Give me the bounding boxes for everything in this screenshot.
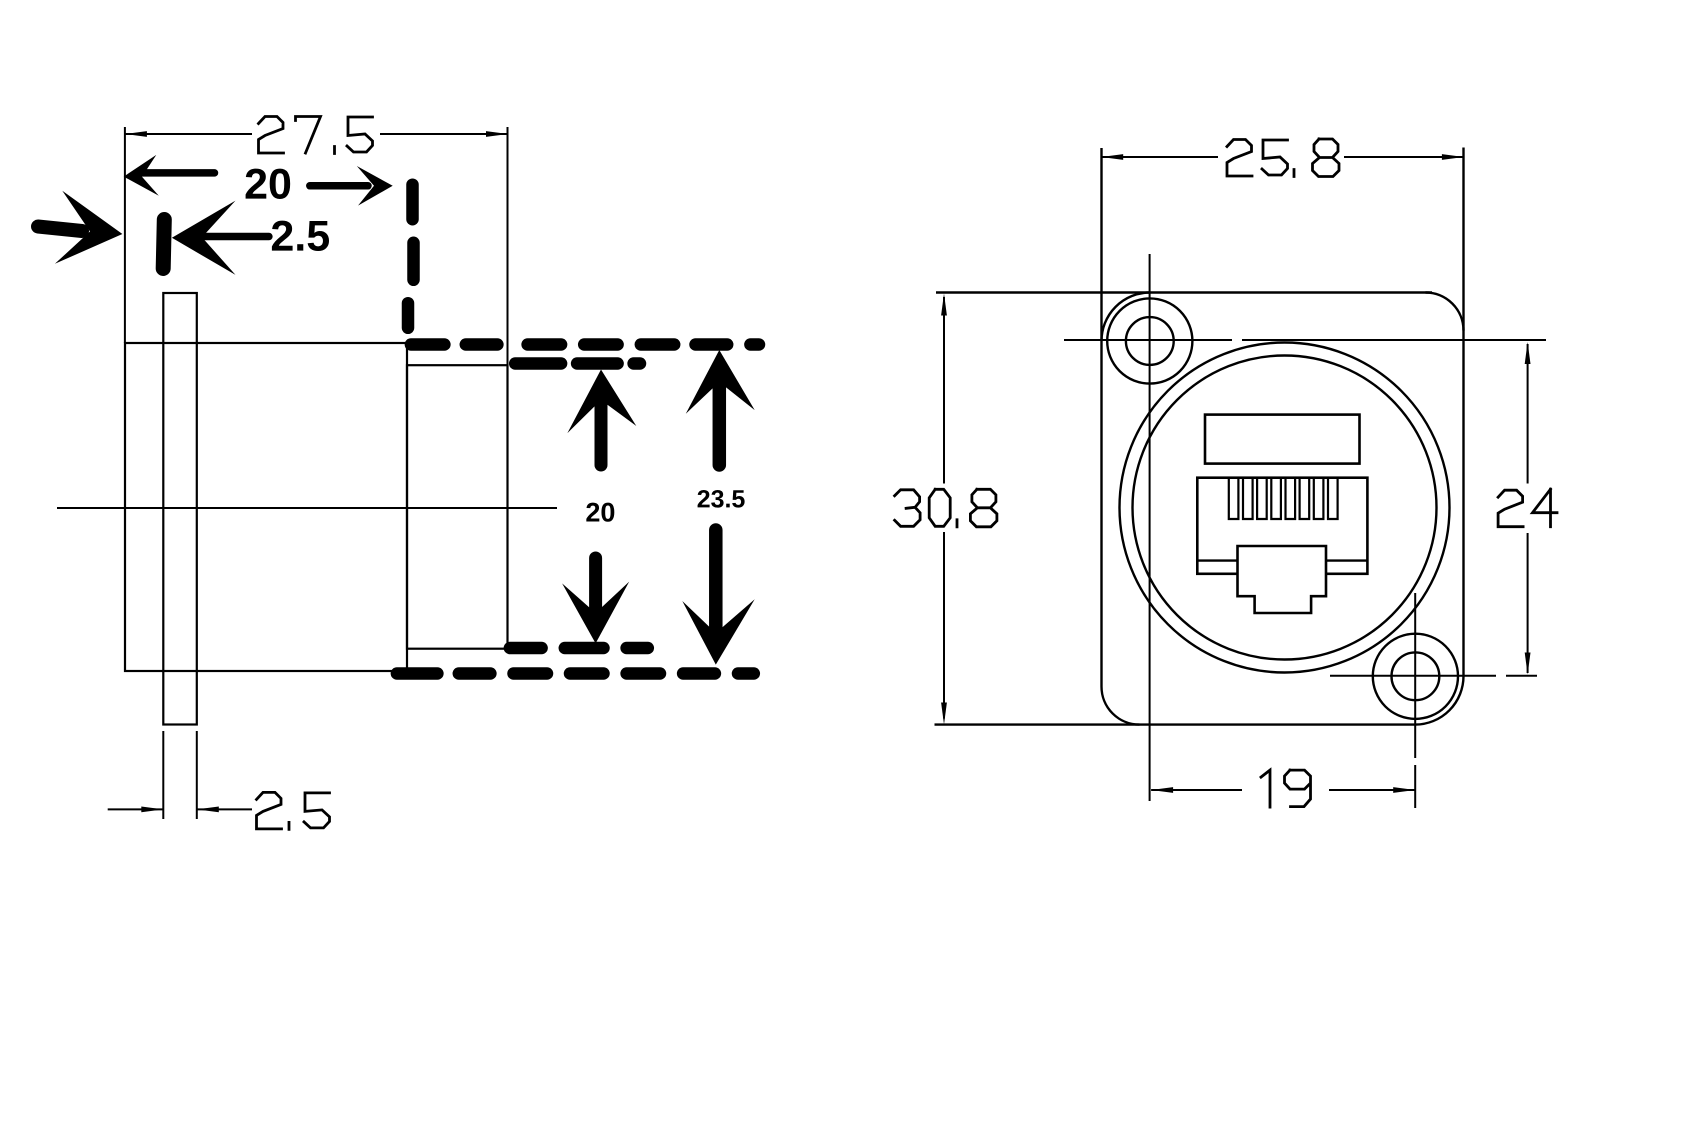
rj45 lower inner ledge (1197, 559, 1237, 561)
dimension 30.8 line (943, 297, 945, 484)
dimension 25.8 line (1101, 156, 1218, 158)
thick dashed line bottom inner (510, 642, 542, 655)
side view: flange plate (163, 293, 197, 725)
bold arrow pointing left (20) (124, 155, 159, 196)
thick dashed vertical line (406, 185, 419, 220)
bold label 20 (top) (246, 169, 267, 199)
flange corner arc top-left (1102, 293, 1150, 342)
front view: flange top edge + ext line 30.8 (936, 291, 1432, 293)
dimension 2.5 line (108, 808, 164, 810)
dimension text 30.8 (895, 489, 997, 527)
flange corner arc bottom-left (1101, 687, 1139, 725)
rj45 latch slot (1238, 546, 1327, 613)
bold down arrow (20) (562, 582, 629, 644)
dimension 27.5 extension line right (507, 127, 509, 365)
bold tick mark flange thickness (163, 220, 164, 269)
center line horizontal through top-left hole (1064, 339, 1232, 341)
side view: connector body (125, 343, 407, 671)
bold label 23.5 (698, 490, 710, 507)
main circular body inner (1133, 356, 1437, 660)
dimension 27.5 extension line left (124, 127, 126, 343)
dimension text 24 (1498, 489, 1557, 527)
bold label 2.5 (272, 221, 293, 251)
center line vertical through bottom-right hole (1414, 593, 1416, 758)
thick dashed line top outer (411, 338, 445, 351)
flange corner arc bottom-right (1416, 676, 1464, 724)
rj45 receptacle body (1197, 478, 1367, 574)
rj45 contact pins (1229, 479, 1338, 519)
dimension 19 line (1151, 789, 1242, 791)
side view: rear jack housing (407, 365, 508, 649)
dimension text 19 (1261, 770, 1311, 807)
mounting hole top-left inner (1126, 317, 1174, 365)
bold label 20 (middle) (586, 503, 599, 522)
bold up arrow (20) (567, 370, 636, 434)
front view: flange right edge + ext line 25.8 (1462, 148, 1464, 677)
center line vertical through top-left hole (1149, 254, 1151, 801)
dimension text 2.5 (257, 792, 330, 829)
front view: flange left edge + ext line 25.8 (1100, 148, 1102, 687)
rj45 top slot (1205, 415, 1360, 464)
mounting hole bottom-right inner (1392, 652, 1440, 700)
dimension text 27.5 (259, 117, 373, 154)
mounting hole bottom-right outer (1373, 634, 1458, 719)
main circular body outer (1120, 343, 1450, 673)
dimension text 25.8 (1227, 139, 1339, 177)
bold arrow pointing right (20) (357, 166, 393, 206)
mounting hole top-left outer (1107, 298, 1192, 383)
bold up arrow (23.5) (686, 350, 755, 414)
dimension 27.5 line (125, 133, 252, 135)
front view: flange bottom edge + ext line 30.8 (935, 723, 1416, 725)
side view: center line (57, 507, 557, 509)
dimension 2.5 extension lines (162, 731, 164, 819)
center line horizontal through bottom-right hole (1330, 675, 1496, 677)
flange corner arc top-right (1426, 293, 1464, 331)
bold arrow pointing right (far left) (55, 191, 123, 264)
thick dashed line top inner (515, 357, 561, 370)
dimension 24 line (1527, 344, 1529, 484)
bold down arrow (23.5) (682, 599, 754, 664)
bold arrow pointing left (2.5) (172, 201, 236, 275)
thick dashed line bottom outer (397, 667, 438, 680)
